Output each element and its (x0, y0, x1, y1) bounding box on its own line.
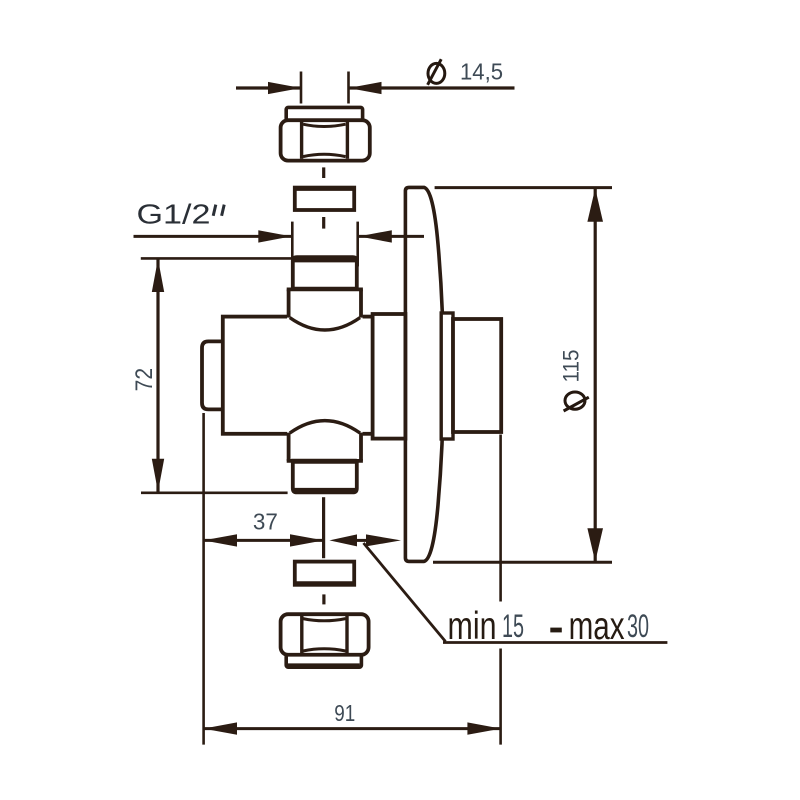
centerline segment below bottom pipe (322, 497, 325, 558)
arrow 72 up (152, 259, 164, 292)
dimension Ø115 vertical line (594, 189, 597, 561)
leader line to min-max label (364, 543, 446, 642)
svg-text:min: min (448, 605, 497, 648)
main valve body (223, 317, 373, 434)
arrow Ø115 down (587, 528, 603, 562)
extension line right of pipe lower part (499, 649, 502, 745)
svg-text:15: 15 (502, 608, 524, 644)
phi symbol right (rotated) (565, 392, 585, 409)
top pipe thick top edge (294, 256, 356, 262)
extension tick right (347, 72, 350, 104)
bottom pipe shoulder (291, 459, 357, 464)
arrow Ø14,5 right (349, 82, 382, 94)
top nut facet line right (346, 122, 349, 159)
dash between min and max (550, 628, 562, 633)
arrow 91 left (203, 722, 237, 734)
bottom transition arc (290, 421, 360, 433)
extension line Ø115 bottom (433, 561, 612, 564)
dimension Ø14,5 line left (236, 86, 301, 89)
top transition arc (290, 318, 360, 330)
dimension G1/2 line right (359, 235, 424, 238)
bottom nut facet arc upper (303, 619, 346, 621)
dimension G1/2 line left (134, 235, 292, 238)
arrow G1/2 left (258, 230, 291, 242)
dimension 72 vertical line (156, 258, 159, 492)
top pipe shoulder (291, 287, 357, 291)
bottom cone section (287, 431, 363, 437)
collar between body and flange (373, 314, 406, 439)
bottom hex nut (281, 614, 369, 655)
top threaded pipe (293, 257, 357, 289)
bottom washer flange (286, 655, 361, 667)
extension line Ø115 top (435, 186, 612, 189)
pipe collar ring right of flange (441, 313, 453, 439)
extension line 72 bottom (141, 491, 288, 494)
arrow G1/2 right (359, 230, 392, 242)
arrow Ø115 up (587, 188, 603, 222)
extension tick left (300, 72, 303, 104)
bottom nut facet arc lower (303, 649, 346, 651)
dimension 91 line (203, 727, 501, 730)
arrow 72 down (152, 459, 164, 492)
min-max label underline (443, 641, 667, 644)
arrow 37 right (290, 534, 324, 546)
bottom threaded pipe (293, 461, 357, 492)
svg-text:115: 115 (559, 350, 584, 383)
bottom nut facet line right (345, 616, 348, 653)
svg-text:72: 72 (131, 368, 158, 392)
flange plate (wall rosette, side profile) (405, 187, 443, 561)
bottom pipe end edge (294, 488, 356, 493)
outlet pipe through wall (453, 319, 501, 432)
min-max dimension arrow left (329, 534, 357, 546)
top nut facet line left (300, 122, 303, 159)
phi symbol top (428, 63, 445, 83)
gasket lower (295, 562, 354, 585)
extension line 72 top (141, 257, 291, 260)
extension line from left stub down (202, 413, 205, 745)
svg-text:G1/2: G1/2 (137, 199, 211, 230)
min-max dimension arrow right (366, 534, 401, 546)
gasket upper (295, 188, 354, 210)
arrow 37 left (203, 534, 237, 546)
min-max dimension line (357, 539, 368, 542)
top hex nut (281, 120, 370, 160)
arrow 91 right (467, 722, 501, 734)
svg-text:14,5: 14,5 (460, 59, 503, 85)
arrow Ø14,5 left (268, 82, 301, 94)
dimension Ø14,5 line right (349, 86, 515, 89)
centerline dash between gasket and top pipe (322, 217, 325, 229)
centerline dash between nut and gasket (322, 167, 325, 178)
dimension 37 line (203, 539, 323, 542)
extension tick G1/2 right (356, 222, 359, 267)
top nut facet arc upper (303, 124, 346, 126)
top cone section (287, 313, 363, 319)
left stub (valve cap) (202, 341, 223, 409)
svg-text:37: 37 (253, 509, 278, 535)
extension line right of pipe upper part (499, 435, 502, 602)
top washer flange (286, 107, 362, 120)
svg-text:91: 91 (334, 700, 355, 726)
svg-text:30: 30 (627, 608, 649, 644)
extension tick G1/2 left (291, 222, 294, 267)
centerline dash between gasket2 and nut2 (322, 594, 325, 604)
top nut facet arc lower (303, 154, 346, 156)
bottom nut facet line left (300, 616, 303, 653)
svg-text:max: max (569, 605, 625, 648)
